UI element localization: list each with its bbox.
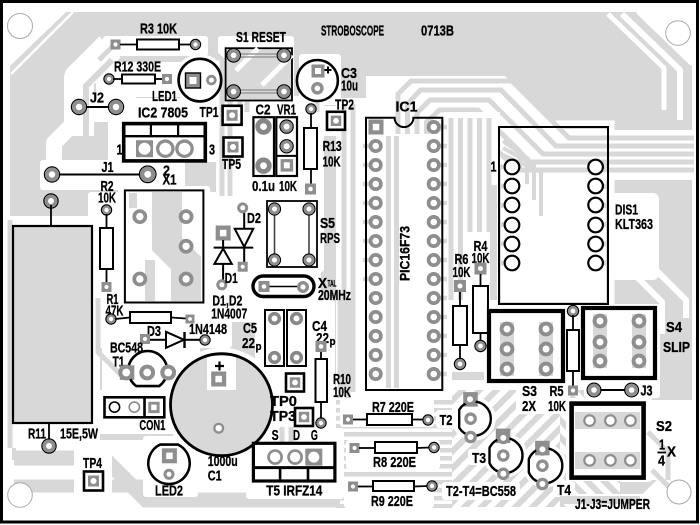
svg-text:10K: 10K xyxy=(333,384,351,401)
shared cathode bar D1 D2 xyxy=(214,247,254,249)
DIS1 pads xyxy=(505,160,520,175)
S4 interior traces xyxy=(593,314,607,368)
svg-text:T4: T4 xyxy=(557,482,572,499)
svg-text:15E,5W: 15E,5W xyxy=(60,426,99,443)
LED LED1 xyxy=(179,59,222,102)
svg-text:0.1u: 0.1u xyxy=(252,178,275,195)
svg-text:TP4: TP4 xyxy=(83,455,102,472)
svg-text:X: X xyxy=(667,444,676,461)
right edge channels xyxy=(640,10,694,62)
svg-text:X1: X1 xyxy=(163,172,177,189)
svg-text:T3: T3 xyxy=(472,450,486,467)
switch S5 RPS xyxy=(267,201,317,267)
DIS1 interior traces xyxy=(503,134,520,168)
svg-text:T2: T2 xyxy=(440,412,453,429)
svg-text:SLIP: SLIP xyxy=(663,339,690,356)
switch S3 2X xyxy=(489,311,563,381)
resistor R5 xyxy=(567,305,578,316)
diode D1 xyxy=(216,226,231,241)
mounting hole top-left xyxy=(8,14,33,39)
svg-text:IC1: IC1 xyxy=(396,99,418,116)
mounting hole bottom-right xyxy=(667,480,691,504)
switch S2 xyxy=(572,404,644,478)
mounting hole top-right xyxy=(666,21,691,46)
svg-text:10u: 10u xyxy=(341,78,358,95)
svg-text:4: 4 xyxy=(658,453,666,470)
svg-text:J1: J1 xyxy=(102,159,114,176)
capacitor C3 xyxy=(297,60,338,101)
svg-text:0713B: 0713B xyxy=(421,23,454,40)
chevrons right of S2 xyxy=(648,432,668,480)
LED LED2 xyxy=(148,445,189,484)
svg-text:TP5: TP5 xyxy=(222,156,241,173)
svg-text:S4: S4 xyxy=(666,319,683,336)
svg-text:C2: C2 xyxy=(256,102,271,119)
routing clearance channels xyxy=(103,36,208,56)
svg-text:S: S xyxy=(272,427,279,444)
capacitor C1 1000u xyxy=(207,356,236,390)
svg-text:R9 220E: R9 220E xyxy=(371,493,413,510)
test point TP0 xyxy=(286,374,304,392)
S3 interior traces xyxy=(500,322,514,376)
display DIS1 KLT363 xyxy=(499,127,608,304)
IC1 pads xyxy=(427,120,441,134)
svg-text:R13: R13 xyxy=(323,138,342,155)
svg-text:3: 3 xyxy=(209,142,215,159)
svg-text:10K: 10K xyxy=(323,154,341,171)
svg-text:RPS: RPS xyxy=(320,230,340,247)
svg-text:J1-J3=JUMPER: J1-J3=JUMPER xyxy=(575,496,650,513)
transformer X1 footprint xyxy=(125,190,203,302)
svg-text:10K: 10K xyxy=(453,264,471,281)
connector CON1 xyxy=(105,397,165,417)
svg-text:T2-T4=BC558: T2-T4=BC558 xyxy=(446,483,516,500)
svg-text:22: 22 xyxy=(242,335,255,352)
trace bundle IC1 to DIS1 xyxy=(366,76,446,136)
svg-text:IC2 7805: IC2 7805 xyxy=(138,105,188,122)
svg-text:R8 220E: R8 220E xyxy=(373,454,416,471)
svg-text:LED2: LED2 xyxy=(155,483,183,500)
test point TP5 xyxy=(224,138,243,157)
svg-text:VR1: VR1 xyxy=(277,102,296,119)
svg-text:1: 1 xyxy=(117,142,123,159)
svg-text:2X: 2X xyxy=(522,398,536,415)
svg-text:TP3: TP3 xyxy=(270,408,296,425)
svg-text:p: p xyxy=(330,336,336,348)
svg-text:PIC16F73: PIC16F73 xyxy=(397,226,413,281)
resistor R13 xyxy=(306,104,316,114)
S2 interior traces xyxy=(575,412,640,429)
svg-text:STROBOSCOPE: STROBOSCOPE xyxy=(321,23,384,40)
svg-text:10K: 10K xyxy=(548,398,566,415)
svg-text:G: G xyxy=(311,427,318,444)
svg-text:J3: J3 xyxy=(641,383,653,400)
svg-text:S1 RESET: S1 RESET xyxy=(236,29,286,46)
svg-text:R12 330E: R12 330E xyxy=(114,59,161,76)
svg-text:1: 1 xyxy=(491,159,497,176)
svg-text:D: D xyxy=(293,427,300,444)
copper trace texture xyxy=(336,398,452,508)
jumper J3 xyxy=(594,389,632,391)
svg-text:1: 1 xyxy=(659,437,665,454)
svg-text:10K: 10K xyxy=(98,190,116,207)
svg-text:p: p xyxy=(256,341,262,353)
svg-text:D2: D2 xyxy=(247,210,261,227)
C1 interior pour xyxy=(171,354,272,455)
svg-text:10K: 10K xyxy=(279,178,297,195)
resistor R10 xyxy=(316,341,327,352)
svg-text:J2: J2 xyxy=(90,90,104,107)
svg-text:C1: C1 xyxy=(208,468,222,485)
svg-text:KLT363: KLT363 xyxy=(615,216,653,233)
svg-text:D1: D1 xyxy=(225,270,238,287)
svg-text:R3 10K: R3 10K xyxy=(140,21,177,38)
svg-text:S2: S2 xyxy=(656,418,672,435)
crystal Xtal 20MHz xyxy=(253,276,314,297)
svg-text:T5 IRFZ14: T5 IRFZ14 xyxy=(266,483,323,500)
resistor R11 15E 5W xyxy=(44,194,58,208)
svg-text:TP1: TP1 xyxy=(200,104,219,121)
mounting hole bottom-left xyxy=(8,483,33,508)
svg-text:1N4007: 1N4007 xyxy=(211,306,247,323)
IC1 pin1 pad xyxy=(369,120,384,135)
trace bundle IC1-DIS1 vertical xyxy=(444,112,500,310)
switch S4 SLIP xyxy=(583,308,655,378)
svg-text:20MHz: 20MHz xyxy=(318,287,351,304)
svg-text:R11: R11 xyxy=(28,426,46,443)
svg-text:CON1: CON1 xyxy=(139,417,165,434)
pad X1 pin2 xyxy=(139,166,156,183)
svg-text:LED1: LED1 xyxy=(152,88,177,105)
